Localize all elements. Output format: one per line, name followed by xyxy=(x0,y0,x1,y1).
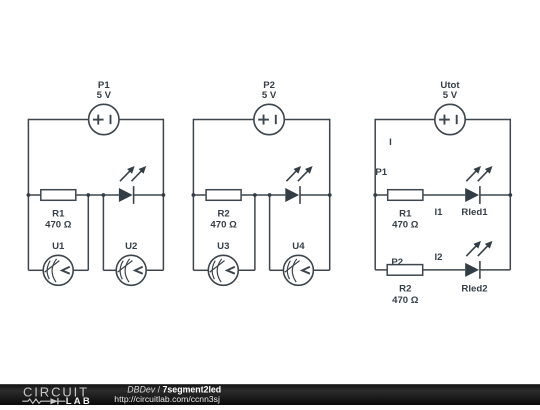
svg-text:http://circuitlab.com/ccnn3sj: http://circuitlab.com/ccnn3sj xyxy=(114,394,220,404)
svg-text:470 Ω: 470 Ω xyxy=(392,220,419,231)
svg-text:R1: R1 xyxy=(52,208,65,219)
svg-text:I: I xyxy=(389,137,392,148)
svg-text:P1: P1 xyxy=(375,167,387,178)
svg-text:5 V: 5 V xyxy=(262,90,277,101)
svg-text:470 Ω: 470 Ω xyxy=(392,295,419,306)
svg-text:Rled2: Rled2 xyxy=(461,283,487,294)
svg-text:5 V: 5 V xyxy=(443,90,458,101)
svg-text:LAB: LAB xyxy=(66,396,92,405)
svg-text:U4: U4 xyxy=(292,241,305,252)
svg-text:DBDev / 7segment2led: DBDev / 7segment2led xyxy=(127,384,221,394)
svg-text:U1: U1 xyxy=(52,241,65,252)
svg-text:R2: R2 xyxy=(399,283,411,294)
svg-text:U2: U2 xyxy=(125,241,137,252)
svg-text:I1: I1 xyxy=(434,207,443,218)
svg-text:5 V: 5 V xyxy=(97,90,112,101)
svg-text:I2: I2 xyxy=(434,252,442,263)
svg-text:Rled1: Rled1 xyxy=(461,207,488,218)
svg-text:R2: R2 xyxy=(217,208,229,219)
svg-text:470 Ω: 470 Ω xyxy=(45,220,72,231)
svg-text:R1: R1 xyxy=(399,208,412,219)
svg-text:U3: U3 xyxy=(217,241,229,252)
svg-text:470 Ω: 470 Ω xyxy=(210,220,237,231)
svg-text:P2: P2 xyxy=(391,257,403,268)
